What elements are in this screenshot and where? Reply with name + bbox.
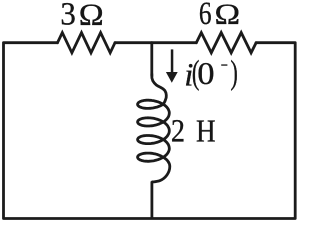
svg-text:Ω: Ω bbox=[215, 0, 241, 31]
svg-text:6: 6 bbox=[199, 0, 212, 32]
svg-text:3: 3 bbox=[60, 0, 75, 32]
wire: outer rectangle left/bottom/right bbox=[4, 43, 296, 219]
wire: middle branch bottom bbox=[150, 181, 153, 218]
svg-text:0: 0 bbox=[197, 56, 214, 92]
svg-text:Ω: Ω bbox=[79, 0, 104, 31]
inductor L1 2H coil bbox=[138, 74, 170, 182]
wire: top middle segment between resistors bbox=[115, 41, 196, 44]
current arrow of i(0-) bbox=[166, 49, 178, 82]
resistor R1 3 ohm zigzag bbox=[58, 33, 116, 53]
resistor R2 6 ohm zigzag bbox=[196, 33, 256, 53]
svg-text:H: H bbox=[196, 114, 216, 148]
svg-text:): ) bbox=[230, 54, 237, 92]
svg-text:2: 2 bbox=[171, 113, 185, 149]
wire: middle branch top bbox=[150, 43, 153, 76]
